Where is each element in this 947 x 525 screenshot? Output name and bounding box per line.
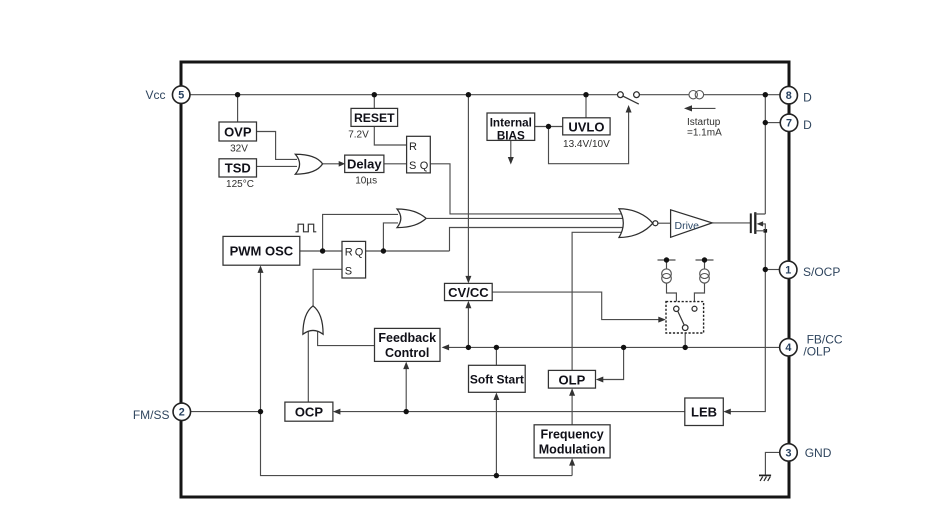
svg-text:LEB: LEB (691, 405, 717, 420)
svg-text:S: S (345, 265, 352, 277)
wire current source to pin8/rail (704, 94, 780, 96)
arrow into Frequency Modulation bottom (569, 458, 575, 466)
svg-text:Control: Control (385, 346, 429, 360)
wire rail to MOSFET drain (764, 123, 766, 214)
arrow into Delay (339, 161, 346, 167)
wire left current source rail stub (658, 259, 676, 261)
wire FM/SS down and across bottom (261, 412, 573, 476)
wire Istartup arrow line (688, 107, 716, 109)
pin 7 D (780, 114, 798, 132)
node pin4-switch junction (683, 345, 688, 350)
arrow into Feedback Control bottom (403, 362, 409, 370)
wire Internal BIAS output down (510, 140, 512, 159)
wire OCP node up to Feedback Control bottom (405, 366, 407, 412)
svg-text:2: 2 (179, 407, 185, 419)
svg-text:S/OCP: S/OCP (803, 265, 840, 279)
wire pin4 node to OLP right input (600, 347, 624, 379)
wire OR1 output to Delay (323, 163, 340, 165)
buffer Drive (671, 210, 713, 238)
node Vcc-RESET junction (372, 92, 377, 97)
wire Internal BIAS to UVLO (535, 126, 563, 128)
wire TSD output to OR gate (257, 165, 298, 167)
wire NOR output to Drive (658, 222, 671, 224)
arrow into Feedback Control right (442, 344, 450, 350)
svg-text:OVP: OVP (224, 124, 252, 139)
switch SW1 on Vcc rail (618, 92, 640, 104)
svg-text:OLP: OLP (559, 372, 586, 387)
block PWM OSC (223, 236, 300, 265)
svg-text:FM/SS: FM/SS (133, 408, 170, 422)
svg-text:Soft Start: Soft Start (470, 372, 524, 386)
svg-text:PWM OSC: PWM OSC (230, 244, 294, 259)
wire OVP output to OR gate (257, 132, 298, 160)
pin 8 D (780, 86, 798, 104)
block LEB (685, 398, 724, 426)
node Vcc-UVLO junction (583, 92, 588, 97)
svg-text:UVLO: UVLO (568, 120, 604, 135)
wire pin4 node down to Soft Start top (495, 347, 497, 365)
wire pin4 node up to CV/CC bottom (467, 305, 469, 347)
arrow into OLP right (596, 377, 604, 383)
svg-text:Modulation: Modulation (539, 442, 606, 456)
node latch2 Q junction (381, 248, 386, 253)
block Delay (345, 155, 384, 172)
svg-text:R: R (409, 141, 417, 153)
svg-text:D: D (803, 118, 812, 132)
pin 2 FM/SS (173, 403, 191, 421)
svg-text:D: D (803, 90, 812, 104)
pin 3 GND (780, 444, 798, 462)
wire pin 4 FB/CC net (446, 346, 780, 348)
wire Q2 jog up to NOR input 3 (450, 228, 625, 252)
node pin4-SoftStart junction (494, 345, 499, 350)
svg-text:Q: Q (355, 247, 364, 259)
svg-text:10µs: 10µs (355, 176, 377, 187)
svg-text:7: 7 (786, 118, 792, 130)
svg-text:4: 4 (785, 342, 791, 354)
wire right current source leads (694, 260, 704, 302)
transistor Q1 power MOSFET (751, 212, 766, 234)
wire right current source rail stub (696, 259, 714, 261)
svg-text:=1.1mA: =1.1mA (687, 128, 722, 139)
wire GND pin to ground (765, 452, 780, 474)
svg-text:1: 1 (785, 265, 791, 277)
arrow into OLP bottom (569, 388, 575, 396)
svg-text:TSD: TSD (225, 160, 251, 175)
svg-text:8: 8 (786, 90, 792, 102)
node MOSFET source junction (764, 229, 768, 233)
node Vcc-CV/CC junction (466, 92, 471, 97)
wire Drive output to MOSFET gate (712, 222, 750, 224)
wire PWM OSC output to latch2 R input (300, 250, 342, 252)
svg-text:Internal: Internal (490, 117, 532, 130)
ground (759, 475, 771, 481)
current source Istartup (689, 91, 704, 99)
node BIAS-UVLO junction (546, 124, 551, 129)
wire OR2 output to NOR input 2 (427, 217, 624, 219)
svg-text:Istartup: Istartup (687, 117, 721, 128)
wire switch common to pin4 net (684, 331, 686, 348)
wire Vcc down to CV/CC top (467, 95, 469, 279)
node Vcc-rail junction (763, 92, 768, 97)
block Soft Start (469, 365, 526, 392)
arrow into CV/CC bottom (465, 301, 471, 309)
svg-text:Q: Q (420, 160, 429, 172)
block RESET (351, 108, 398, 126)
block OVP (219, 122, 257, 141)
node S/OCP junction (763, 267, 768, 272)
svg-text:CV/CC: CV/CC (448, 285, 489, 300)
wire bottom line up to Frequency Modulation (571, 463, 573, 476)
current source I1 (CV) (662, 269, 672, 283)
pin 4 FB/CC/OLP (780, 339, 798, 357)
wire Vcc to UVLO (585, 95, 587, 118)
wire Frequency Modulation to OLP (571, 393, 573, 425)
wire OR3 right input from Feedback Control (318, 329, 375, 346)
svg-text:Vcc: Vcc (145, 88, 165, 102)
svg-text:S: S (409, 160, 416, 172)
wire switch to startup current source (639, 94, 689, 96)
wire S/OCP node to pin 1 (765, 269, 779, 271)
latch U1 R/S-Q (407, 136, 431, 173)
svg-text:7.2V: 7.2V (348, 130, 369, 141)
arrow into PWM OSC bottom (258, 265, 264, 273)
svg-text:Delay: Delay (347, 156, 382, 171)
block CV/CC (445, 283, 493, 300)
block UVLO (563, 118, 610, 135)
svg-text:GND: GND (805, 446, 832, 460)
arrow into Soft Start bottom (493, 393, 499, 401)
svg-text:RESET: RESET (354, 111, 395, 125)
block Internal BIAS (487, 113, 535, 140)
wire left current source leads (667, 260, 677, 302)
wire Vcc bus from pin 5 to switch (190, 94, 618, 96)
svg-text:Feedback: Feedback (378, 331, 436, 345)
wire latch2 R node up to OR2 top input (323, 214, 398, 251)
svg-text:Frequency: Frequency (540, 427, 603, 441)
or-gate G1 (OVP/TSD) (295, 154, 322, 174)
wire rail pin8 to pin7 node (764, 95, 766, 123)
block OLP (548, 370, 595, 388)
node pin4-OLP junction (621, 345, 626, 350)
svg-text:3: 3 (785, 447, 791, 459)
nor-gate G4 (619, 209, 653, 238)
svg-text:32V: 32V (230, 144, 248, 155)
pin 5 Vcc (172, 86, 190, 104)
svg-text:13.4V/10V: 13.4V/10V (563, 139, 610, 150)
clock waveform glyph (296, 224, 317, 232)
wire Vcc to RESET (373, 95, 375, 109)
wire S/OCP rail down to LEB (728, 270, 765, 412)
latch U2 R-Q/S (342, 241, 366, 278)
wire LEB output to OCP (338, 411, 685, 413)
wire OR3 left input from OCP top (307, 329, 309, 402)
node pin7 junction (763, 120, 768, 125)
node PWM OSC output junction (320, 248, 325, 253)
arrow into switch box left (658, 317, 666, 323)
IC outline box (181, 62, 789, 497)
svg-text:BIAS: BIAS (497, 130, 525, 143)
wire UVLO control to switch (549, 111, 629, 164)
arrow Internal BIAS output (508, 157, 514, 165)
wire latch1 Q output down to NOR input 1 (430, 164, 624, 214)
arrow into LEB right (723, 409, 731, 415)
wire Q node up to OR2 bottom input (383, 223, 398, 251)
wire bottom node up to Soft Start (495, 397, 497, 476)
or-gate G3 (vertical) (303, 306, 323, 334)
node left current source rail (664, 257, 669, 262)
wire Delay output to latch S input (384, 163, 407, 165)
node bottom SoftStart junction (494, 473, 499, 478)
arrow Istartup direction (684, 105, 692, 111)
wire CV/CC output to switch box (492, 292, 661, 320)
node OCP-Feedback junction (404, 409, 409, 414)
block Feedback Control (375, 328, 441, 361)
block Frequency Modulation (534, 425, 610, 458)
svg-text:Drive: Drive (675, 220, 700, 232)
arrow into CV/CC top (465, 276, 471, 284)
wire latch2 Q output (366, 250, 450, 252)
svg-text:/OLP: /OLP (803, 344, 830, 358)
arrow into OCP right (333, 409, 341, 415)
current source I2 (CC) (700, 269, 710, 283)
wire pin 2 FM/SS to junction (191, 411, 261, 413)
node right current source rail (702, 257, 707, 262)
node pin4-CV/CC junction (466, 345, 471, 350)
wire RESET to latch R input (374, 126, 406, 145)
block TSD (219, 159, 257, 177)
arrow UVLO control to switch (626, 105, 632, 113)
wire Vcc to OVP (237, 95, 239, 122)
wire pin7 stub (765, 122, 780, 124)
wire MOSFET source down to S/OCP node (764, 231, 766, 270)
wire OLP top up to NOR input 4 (572, 232, 624, 370)
svg-text:5: 5 (178, 90, 184, 102)
node FM/SS junction (258, 409, 263, 414)
pin 1 S/OCP (779, 261, 797, 279)
node Vcc-OVP junction (235, 92, 240, 97)
svg-text:OCP: OCP (295, 405, 324, 420)
arrow MOSFET body (757, 221, 764, 226)
svg-text:R: R (345, 247, 353, 259)
or-gate G2 (PWM) (397, 209, 426, 228)
wire FM/SS junction up to PWM OSC (260, 270, 262, 412)
switch box SW2 (dashed) (666, 302, 704, 333)
block OCP (285, 402, 333, 421)
svg-text:125°C: 125°C (226, 179, 254, 190)
wire latch2 S input from OR3 (313, 269, 342, 305)
